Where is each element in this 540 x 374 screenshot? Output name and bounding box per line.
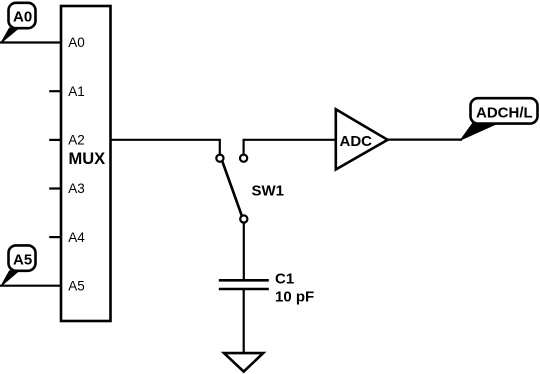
ground (224, 353, 263, 372)
flag ADCH/L (461, 98, 538, 140)
svg-text:A0: A0 (68, 35, 85, 50)
flag A0 (1, 3, 36, 43)
svg-text:A4: A4 (68, 230, 85, 245)
wire MUX output to SW1 left contact (111, 140, 220, 155)
wire A4 stub (49, 236, 61, 238)
wire C1 to ground (243, 289, 245, 353)
svg-text:ADC: ADC (340, 133, 373, 150)
svg-text:ADCH/L: ADCH/L (476, 104, 533, 121)
switch SW1 (216, 155, 247, 223)
svg-text:MUX: MUX (69, 150, 106, 168)
svg-text:A2: A2 (68, 133, 85, 148)
svg-text:10 pF: 10 pF (275, 288, 314, 305)
flag A5 (1, 245, 36, 286)
capacitor C1 (219, 280, 269, 289)
ADC amplifier U1 (336, 109, 388, 169)
wire A5 input (0, 285, 61, 287)
wire A2 stub (49, 139, 61, 141)
wire SW1 bottom to C1 (243, 223, 245, 281)
wire SW1 right contact to ADC (244, 140, 336, 155)
wire ADC output to ADCH/L (388, 139, 462, 141)
wire A3 stub (49, 187, 61, 189)
wire A1 stub (49, 90, 61, 92)
wire A0 input (0, 41, 61, 43)
svg-text:A5: A5 (68, 278, 85, 293)
svg-text:A3: A3 (68, 181, 85, 196)
svg-text:A0: A0 (13, 9, 32, 26)
MUX block (61, 6, 111, 321)
svg-text:A5: A5 (13, 251, 32, 268)
svg-text:SW1: SW1 (252, 182, 285, 199)
svg-text:C1: C1 (275, 270, 294, 287)
svg-text:A1: A1 (68, 84, 85, 99)
